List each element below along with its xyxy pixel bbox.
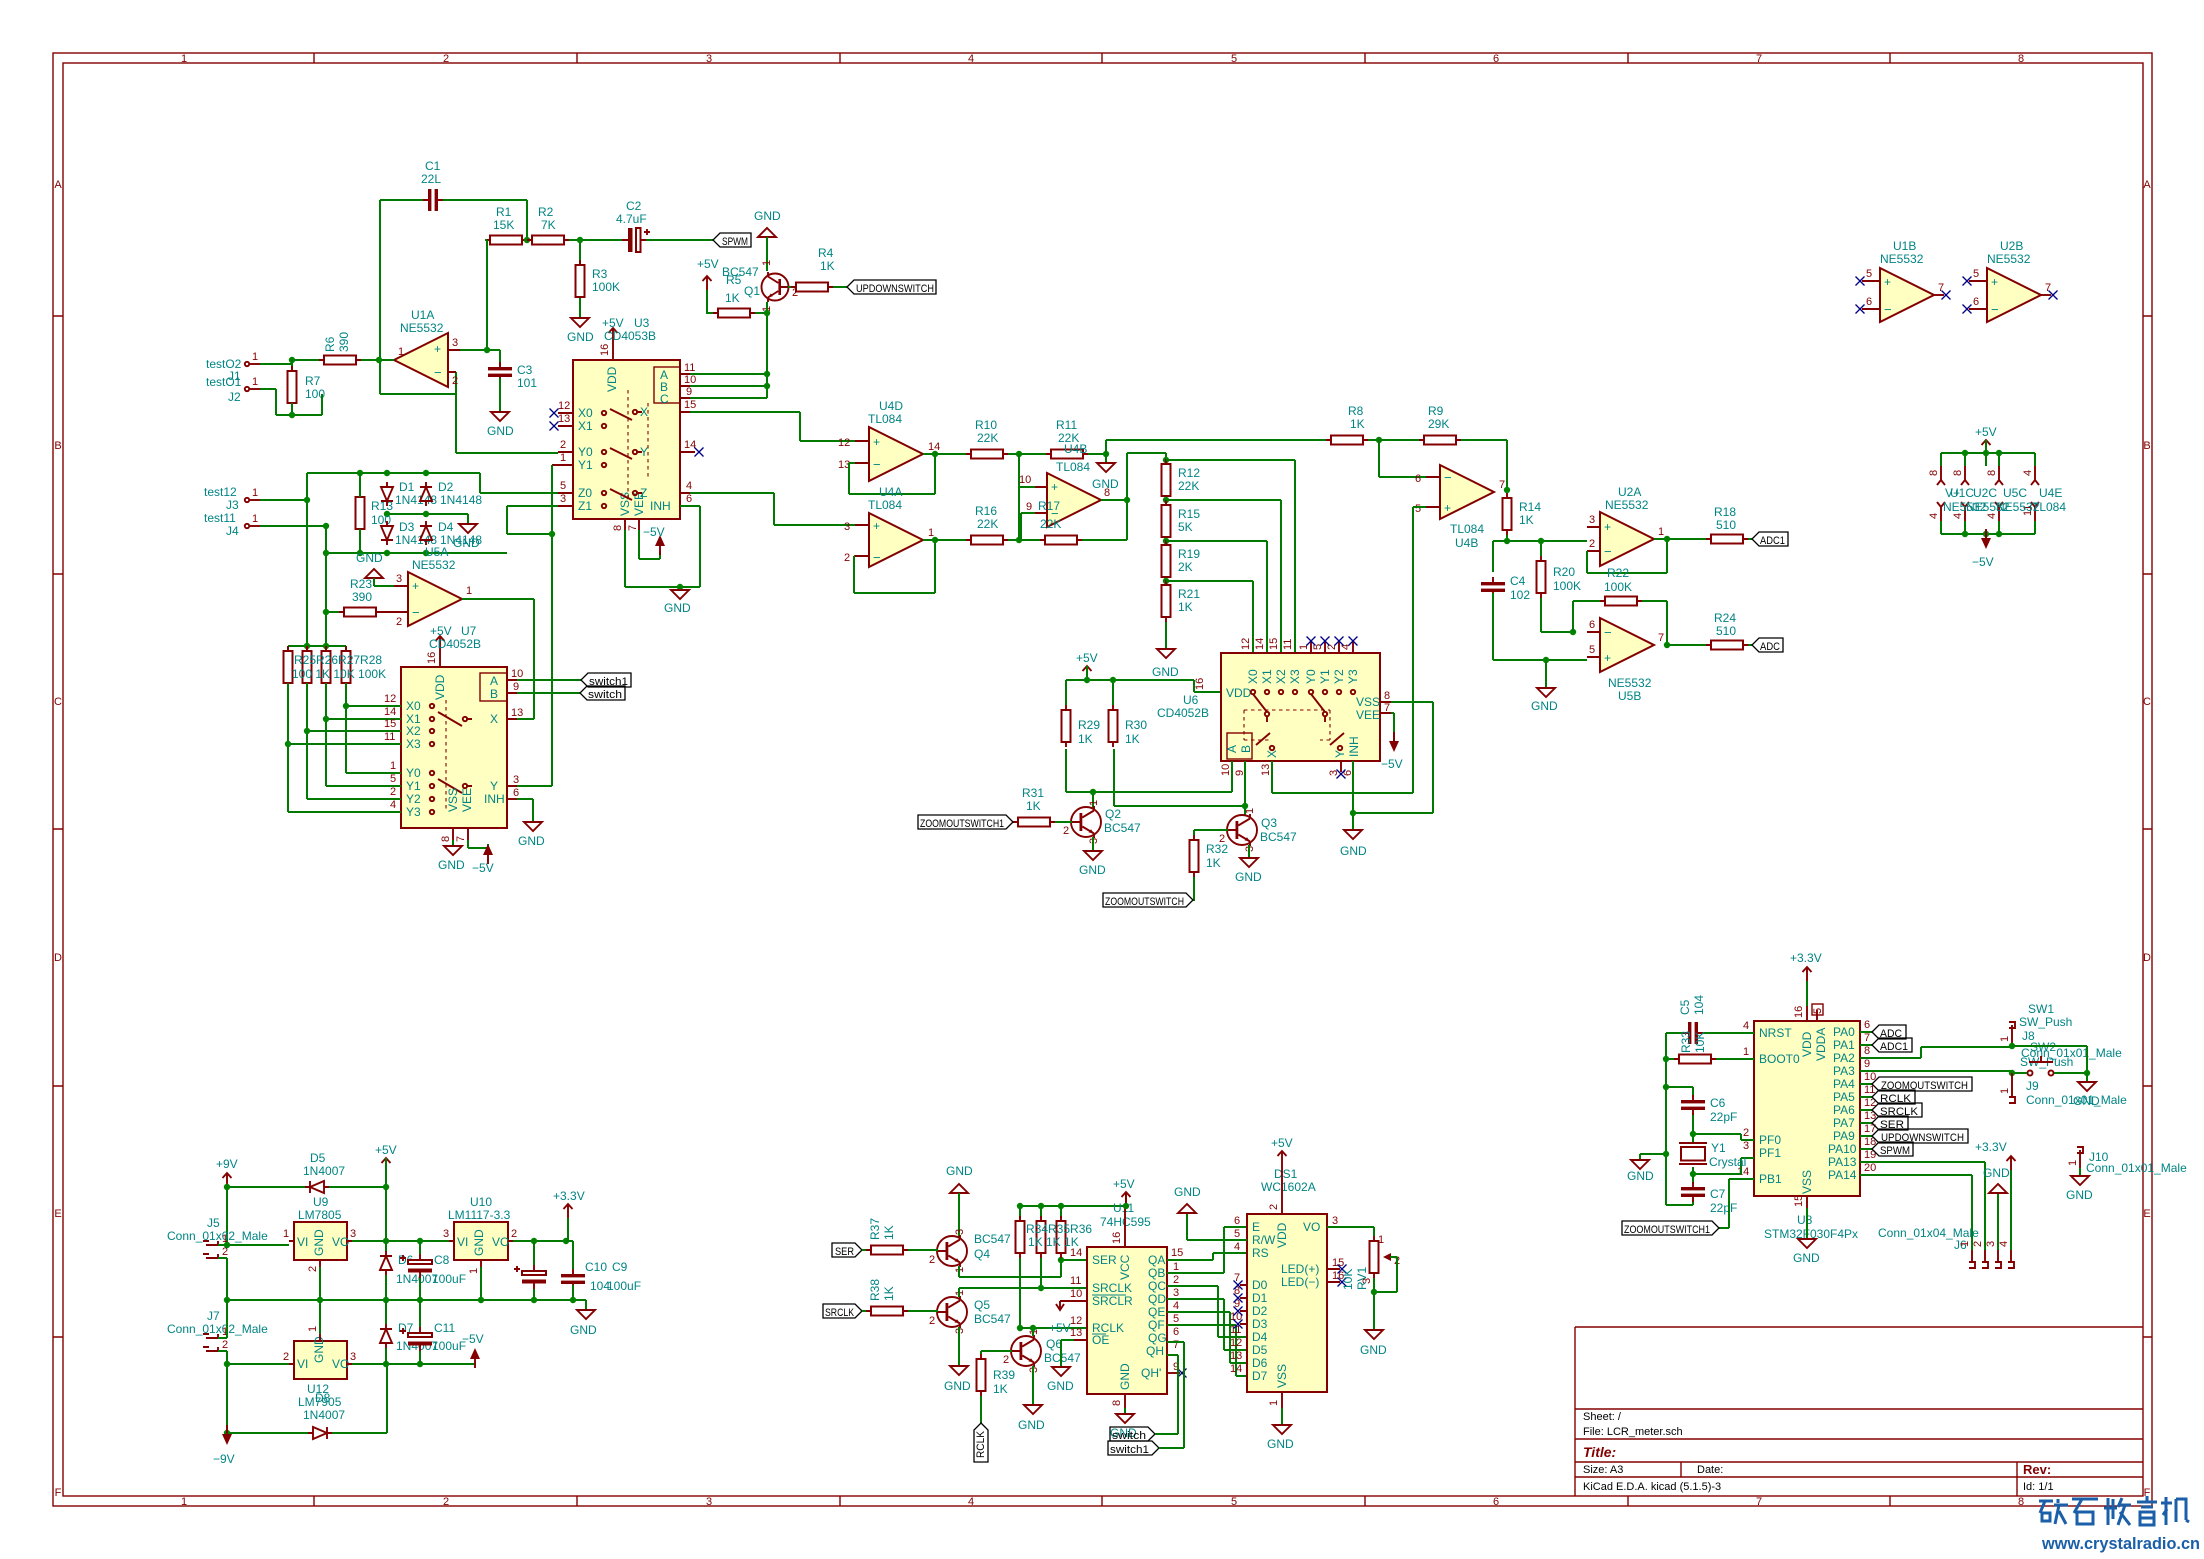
svg-text:3: 3 [513, 774, 519, 786]
svg-text:GND: GND [946, 1164, 973, 1178]
wire R2 to C2 [569, 240, 628, 264]
IC body U3 [573, 360, 680, 519]
INH pin [507, 798, 517, 800]
resistor R39 [977, 1354, 986, 1396]
svg-text:15: 15 [684, 399, 696, 411]
svg-text:R18: R18 [1714, 505, 1736, 519]
Q3 base wire + R32 [1194, 830, 1228, 835]
svg-text:11: 11 [1070, 1275, 1081, 1287]
svg-text:VI: VI [297, 1235, 308, 1249]
svg-text:510: 510 [1716, 624, 1736, 638]
svg-text:X: X [490, 712, 498, 726]
svg-text:12: 12 [838, 437, 850, 449]
-5V below [1981, 529, 1991, 549]
svg-text:U4A: U4A [879, 485, 902, 499]
top rail [1941, 440, 2035, 466]
ground above Q1 [758, 228, 776, 237]
svg-text:+5V: +5V [1049, 1321, 1071, 1335]
svg-text:1: 1 [1658, 526, 1664, 538]
resistor R18 [1706, 535, 1748, 544]
svg-text:3: 3 [1173, 1287, 1179, 1299]
svg-text:GND: GND [1235, 870, 1262, 884]
VSS + INH + pin5 ground [1353, 702, 1433, 830]
svg-text:1K: 1K [882, 1286, 896, 1301]
svg-text:5: 5 [1415, 503, 1421, 515]
svg-text:13: 13 [1230, 1350, 1242, 1362]
svg-text:LM7805: LM7805 [298, 1208, 342, 1222]
svg-text:2: 2 [1063, 825, 1069, 837]
svg-text:22K: 22K [977, 431, 998, 445]
svg-text:2: 2 [1003, 1354, 1009, 1366]
svg-text:R6: R6 [323, 336, 337, 352]
VEE to -5V [468, 840, 488, 848]
svg-text:R19: R19 [1178, 547, 1200, 561]
svg-text:1K: 1K [993, 1382, 1008, 1396]
svg-text:WC1602A: WC1602A [1261, 1180, 1316, 1194]
svg-text:U5C: U5C [2003, 486, 2027, 500]
svg-text:2: 2 [1972, 1241, 1984, 1247]
middle bus [387, 514, 468, 524]
svg-text:U10: U10 [470, 1195, 492, 1209]
svg-text:1: 1 [1298, 644, 1310, 650]
svg-text:8: 8 [1104, 487, 1110, 499]
svg-text:GND: GND [754, 209, 781, 223]
capacitor C2 polarized [622, 228, 650, 252]
svg-text:390: 390 [337, 332, 351, 352]
watermark [2039, 1496, 2189, 1525]
svg-text:1K: 1K [882, 1225, 896, 1240]
global label SRCLK [823, 1304, 862, 1318]
svg-text:4: 4 [968, 1496, 974, 1508]
svg-text:−5V: −5V [1381, 757, 1403, 771]
A/B/C select sub-box [654, 367, 680, 403]
resistor R22 [1600, 597, 1642, 606]
svg-text:1K: 1K [1078, 732, 1093, 746]
B pin wire down to Q3 collector [1114, 749, 1245, 816]
svg-text:Y0: Y0 [1304, 669, 1318, 684]
switch to GND [2086, 1073, 2088, 1082]
svg-text:5: 5 [1312, 644, 1324, 650]
svg-text:1: 1 [283, 1228, 289, 1240]
diode D4 [420, 521, 432, 545]
svg-text:1: 1 [252, 351, 258, 363]
svg-text:2: 2 [1589, 538, 1595, 550]
transistor Q1 BC547 [762, 272, 790, 302]
svg-text:5: 5 [1173, 1313, 1179, 1325]
svg-text:U2C: U2C [1973, 486, 1997, 500]
svg-text:2: 2 [222, 1339, 228, 1351]
svg-text:1: 1 [252, 513, 258, 525]
resistor R11 [1046, 450, 1088, 459]
svg-text:TL084: TL084 [868, 412, 902, 426]
svg-text:NE5532: NE5532 [1608, 676, 1652, 690]
svg-text:4.7uF: 4.7uF [616, 212, 647, 226]
svg-text:VSS: VSS [1800, 1170, 1814, 1194]
svg-text:+: + [1991, 275, 1998, 289]
svg-text:PB1: PB1 [1759, 1172, 1782, 1186]
svg-text:8: 8 [440, 836, 452, 842]
svg-text:+5V: +5V [1975, 425, 1997, 439]
svg-text:GND: GND [1531, 699, 1558, 713]
svg-text:GND: GND [1793, 1251, 1820, 1265]
svg-text:−5V: −5V [1972, 555, 1994, 569]
svg-text:−: − [412, 605, 420, 620]
capacitor C5 [1683, 1022, 1703, 1044]
svg-text:8: 8 [1952, 470, 1964, 476]
svg-text:QF: QF [1148, 1318, 1165, 1332]
svg-text:2: 2 [1743, 1127, 1749, 1139]
svg-text:R37: R37 [868, 1218, 882, 1240]
wire R6 left to junction [292, 360, 319, 373]
+5V arrow left [703, 276, 712, 290]
left pins X0 X1 [558, 413, 573, 426]
svg-text:X2: X2 [1274, 669, 1288, 684]
svg-text:13: 13 [1070, 1327, 1082, 1339]
global label UPDOWNSWITCH [847, 280, 936, 294]
J8 pin [2009, 1022, 2015, 1046]
QA QB wires to LCD [1167, 1227, 1247, 1273]
svg-text:VDDA: VDDA [1814, 1028, 1828, 1061]
capacitor C6 [1681, 1095, 1705, 1115]
PA13 PA14 wires to J6 [1860, 1162, 1985, 1250]
svg-text:5: 5 [1973, 268, 1979, 280]
svg-text:Rev:: Rev: [2023, 1462, 2051, 1477]
wire C1 feedback loop [380, 200, 527, 453]
GND above J6 pin3 [1997, 1193, 1999, 1250]
svg-text:5: 5 [390, 773, 396, 785]
svg-text:15: 15 [1332, 1257, 1344, 1269]
resistor R25 [284, 646, 293, 688]
svg-text:Y3: Y3 [1346, 669, 1360, 684]
PB1 to ZOOMOUTSWITCH1 [1719, 1179, 1754, 1228]
svg-text:ZOOMOUTSWITCH: ZOOMOUTSWITCH [1105, 896, 1184, 908]
Q6 emitter to GND [1032, 1366, 1034, 1405]
svg-text:PA5: PA5 [1833, 1090, 1855, 1104]
svg-text:B: B [2143, 440, 2150, 452]
svg-text:+5V: +5V [1076, 651, 1098, 665]
svg-text:8: 8 [1384, 690, 1390, 702]
resistor R6 [319, 356, 361, 365]
svg-text:INH: INH [1347, 736, 1361, 757]
svg-text:13: 13 [1260, 764, 1272, 776]
+3.3V at VDD [1803, 967, 1812, 981]
A/B sub-box [1227, 733, 1252, 759]
svg-text:8: 8 [1864, 1045, 1870, 1057]
svg-text:LED(−): LED(−) [1281, 1275, 1319, 1289]
bottom rail [1941, 521, 2035, 541]
wire R1 left [485, 240, 487, 350]
svg-text:+: + [1444, 501, 1451, 515]
svg-text:PA1: PA1 [1833, 1038, 1855, 1052]
svg-text:ADC1: ADC1 [1880, 1041, 1908, 1053]
svg-text:Q1: Q1 [744, 284, 760, 298]
op-amp U4B gain stage [1440, 465, 1494, 519]
resistor R16 [966, 536, 1008, 545]
svg-text:2: 2 [1326, 644, 1338, 650]
svg-text:C10: C10 [585, 1260, 607, 1274]
resistor R33 [1674, 1055, 1716, 1064]
IC body U7 [401, 667, 507, 828]
wire Y0 to feedback node [456, 452, 558, 454]
svg-text:Q4: Q4 [974, 1247, 990, 1261]
svg-text:R21: R21 [1178, 587, 1200, 601]
svg-text:10: 10 [1019, 474, 1031, 486]
svg-text:INH: INH [650, 499, 671, 513]
svg-text:1: 1 [1999, 1088, 2011, 1094]
svg-text:4: 4 [1998, 1241, 2010, 1247]
svg-text:VEE: VEE [1356, 708, 1380, 722]
svg-text:9: 9 [513, 681, 519, 693]
svg-text:+5V: +5V [375, 1143, 397, 1157]
svg-text:A: A [1225, 745, 1239, 753]
regulator U12 LM7905 [294, 1341, 347, 1379]
+3.3V above J6 pin4 [2010, 1170, 2012, 1250]
node to C4 and R20 and U2A [1493, 541, 1587, 572]
svg-text:LED(+): LED(+) [1281, 1262, 1319, 1276]
svg-text:PF0: PF0 [1759, 1133, 1781, 1147]
svg-text:1: 1 [1959, 1241, 1971, 1247]
svg-text:Q6: Q6 [1046, 1337, 1062, 1351]
svg-text:C8: C8 [434, 1253, 450, 1267]
svg-text:104: 104 [1692, 995, 1706, 1015]
svg-text:6: 6 [1173, 1326, 1179, 1338]
svg-text:2: 2 [443, 53, 449, 65]
svg-text:Q5: Q5 [974, 1298, 990, 1312]
svg-text:15: 15 [384, 718, 396, 730]
svg-text:1: 1 [307, 1326, 319, 1332]
svg-text:VDD: VDD [1800, 1031, 1814, 1057]
resistor R24 [1706, 641, 1748, 650]
op-amp U1A (mirrored, output left) [394, 333, 448, 387]
Q4 emitter wire to SER pin [959, 1260, 1087, 1277]
svg-text:QD: QD [1148, 1292, 1166, 1306]
resistor R5 [713, 309, 755, 318]
connector J2 pin [250, 388, 260, 390]
svg-text:NE5532: NE5532 [1605, 498, 1649, 512]
svg-text:6: 6 [1493, 1496, 1499, 1508]
crystal Y1 [1679, 1143, 1707, 1164]
svg-text:2: 2 [929, 1315, 935, 1327]
svg-text:1K: 1K [1519, 513, 1534, 527]
R25 R26 R27 R28 top rail from +5V? [288, 646, 346, 653]
INH pin [680, 505, 690, 507]
svg-text:GND: GND [1018, 1418, 1045, 1432]
-5V power [655, 535, 665, 555]
svg-text:VDD: VDD [605, 366, 619, 392]
svg-text:1: 1 [1268, 1400, 1280, 1406]
svg-text:3: 3 [560, 493, 566, 505]
svg-text:+5V: +5V [602, 316, 624, 330]
resistor R19 [1162, 540, 1171, 582]
svg-text:1K: 1K [1125, 732, 1140, 746]
svg-text:ADC: ADC [1760, 641, 1780, 653]
svg-text:12: 12 [384, 693, 396, 705]
svg-text:R30: R30 [1125, 718, 1147, 732]
svg-text:VDD: VDD [433, 674, 447, 700]
resistor R3 [576, 260, 585, 302]
+5V to SRCLR [1056, 1301, 1074, 1310]
svg-text:1: 1 [252, 487, 258, 499]
svg-text:1: 1 [1088, 800, 1100, 806]
svg-text:5: 5 [1234, 1228, 1240, 1240]
svg-text:+5V: +5V [1113, 1177, 1135, 1191]
svg-text:1: 1 [1999, 1036, 2011, 1042]
svg-text:D2: D2 [1252, 1304, 1268, 1318]
svg-text:switch: switch [588, 689, 622, 701]
svg-text:U7: U7 [461, 624, 477, 638]
resistor R36 [1057, 1216, 1066, 1258]
ground (pointing up) above pin3 [365, 569, 383, 578]
junction R1-R2 [524, 237, 530, 243]
svg-text:5: 5 [560, 480, 566, 492]
capacitor C10 [561, 1269, 585, 1289]
resistor R13 [356, 492, 365, 534]
resistor R30 [1109, 705, 1118, 747]
svg-text:R7: R7 [305, 374, 321, 388]
svg-text:GND: GND [312, 1229, 326, 1256]
svg-text:12: 12 [1230, 1337, 1242, 1349]
svg-text:File: LCR_meter.sch: File: LCR_meter.sch [1583, 1426, 1683, 1438]
wire R4 to label [833, 286, 847, 288]
svg-text:VSS: VSS [446, 788, 460, 812]
C4/R20 bottoms [1493, 593, 1587, 660]
svg-text:D1: D1 [1252, 1291, 1268, 1305]
svg-text:Id: 1/1: Id: 1/1 [2023, 1481, 2054, 1493]
svg-text:2: 2 [1268, 1204, 1280, 1210]
resistor R27 [322, 646, 331, 688]
wire Z out to U4A [690, 493, 855, 525]
+5V at top [1982, 440, 1991, 454]
svg-text:D4: D4 [1252, 1330, 1268, 1344]
svg-text:U1A: U1A [411, 308, 434, 322]
GND rail [227, 1299, 586, 1301]
svg-text:ADC1: ADC1 [1760, 535, 1785, 547]
svg-text:GND: GND [1360, 1343, 1387, 1357]
+3.3V power [564, 1204, 573, 1218]
svg-text:−: − [1444, 470, 1452, 485]
wire U5A out to U7 X [462, 599, 534, 719]
svg-text:7: 7 [1864, 1032, 1870, 1044]
svg-text:D3: D3 [399, 520, 415, 534]
svg-text:3: 3 [350, 1351, 356, 1363]
svg-text:Q2: Q2 [1105, 807, 1121, 821]
svg-text:test11: test11 [204, 511, 236, 525]
left pins Y0-Y3 [288, 773, 401, 812]
svg-text:PA9: PA9 [1833, 1129, 1855, 1143]
svg-text:2: 2 [396, 616, 402, 628]
svg-text:R14: R14 [1519, 500, 1541, 514]
resistor R20 [1537, 556, 1546, 598]
svg-text:C7: C7 [1710, 1187, 1726, 1201]
svg-text:QA: QA [1148, 1253, 1165, 1267]
svg-text:1K: 1K [1206, 856, 1221, 870]
resistor R35 [1037, 1216, 1046, 1258]
svg-text:VCC: VCC [1118, 1254, 1132, 1280]
svg-text:6: 6 [1415, 473, 1421, 485]
svg-text:2K: 2K [1178, 560, 1193, 574]
svg-text:3: 3 [706, 1496, 712, 1508]
svg-text:X0: X0 [578, 406, 593, 420]
-5V power [470, 1348, 480, 1368]
svg-text:U5A: U5A [425, 545, 448, 559]
svg-text:2: 2 [1173, 1274, 1179, 1286]
svg-text:1K: 1K [1026, 799, 1041, 813]
crystal circuit C6 Y1 C7 [1666, 1087, 1754, 1205]
svg-text:GND: GND [472, 1229, 486, 1256]
svg-text:VEE: VEE [460, 788, 474, 812]
svg-text:10: 10 [1220, 764, 1232, 776]
svg-text:NE5532: NE5532 [412, 558, 456, 572]
svg-text:5: 5 [1812, 1008, 1824, 1014]
svg-text:+3.3V: +3.3V [1790, 951, 1822, 965]
svg-text:15: 15 [1171, 1247, 1183, 1259]
svg-text:1: 1 [1244, 808, 1256, 814]
svg-text:U2A: U2A [1618, 485, 1641, 499]
svg-text:SW1: SW1 [2028, 1002, 2054, 1016]
svg-text:TL084: TL084 [868, 498, 902, 512]
svg-text:1: 1 [181, 1496, 187, 1508]
svg-text:X1: X1 [578, 419, 593, 433]
svg-text:U5B: U5B [1618, 689, 1641, 703]
svg-text:BC547: BC547 [1260, 830, 1297, 844]
svg-text:+: + [1884, 275, 1891, 289]
svg-text:4: 4 [1743, 1020, 1749, 1032]
svg-text:10: 10 [511, 668, 523, 680]
left pins Y0 Y1 [552, 452, 573, 465]
svg-text:4: 4 [2022, 470, 2034, 476]
svg-text:3: 3 [954, 1229, 966, 1235]
svg-text:8: 8 [1111, 1400, 1123, 1406]
svg-text:1: 1 [2067, 1160, 2079, 1166]
svg-text:GND: GND [1079, 863, 1106, 877]
svg-text:UPDOWNSWITCH: UPDOWNSWITCH [856, 283, 934, 295]
svg-text:U4E: U4E [2039, 486, 2062, 500]
svg-text:J3: J3 [226, 498, 239, 512]
regulator U9 LM7805 [294, 1222, 347, 1260]
lower bus [326, 552, 507, 554]
diode D2 [420, 482, 432, 506]
resistor R1 [485, 236, 527, 245]
potentiometer RV1 [1370, 1236, 1379, 1278]
svg-text:C5: C5 [1678, 999, 1692, 1015]
svg-text:R32: R32 [1206, 842, 1228, 856]
svg-text:SER: SER [835, 1246, 854, 1258]
transistor Q2 [1071, 806, 1101, 838]
svg-text:KiCad E.D.A. kicad (5.1.5)-3: KiCad E.D.A. kicad (5.1.5)-3 [1583, 1481, 1721, 1493]
svg-text:510: 510 [1716, 518, 1736, 532]
GND symbol of rail [585, 1300, 587, 1310]
svg-text:7: 7 [1173, 1339, 1179, 1351]
op-amp U2A [1600, 512, 1654, 566]
svg-text:−: − [1884, 302, 1892, 317]
svg-text:TL084: TL084 [1056, 460, 1090, 474]
Q2 emitter to GND [1092, 837, 1094, 851]
svg-text:VO: VO [332, 1357, 349, 1371]
wire U1A output to R6 [354, 359, 394, 361]
resistor R37 [866, 1246, 908, 1255]
capacitor C4 [1481, 577, 1505, 597]
resistor R14 [1503, 493, 1512, 535]
svg-text:C: C [54, 696, 62, 708]
resistor R9 [1419, 436, 1461, 445]
global label ADC [1752, 638, 1783, 652]
svg-text:Conn_01x02_Male: Conn_01x02_Male [167, 1322, 268, 1336]
svg-text:GND: GND [1267, 1437, 1294, 1451]
svg-text:8: 8 [2018, 53, 2024, 65]
svg-text:6: 6 [1234, 1215, 1240, 1227]
VEE to -5V [1391, 713, 1394, 744]
svg-text:J5: J5 [207, 1216, 220, 1230]
